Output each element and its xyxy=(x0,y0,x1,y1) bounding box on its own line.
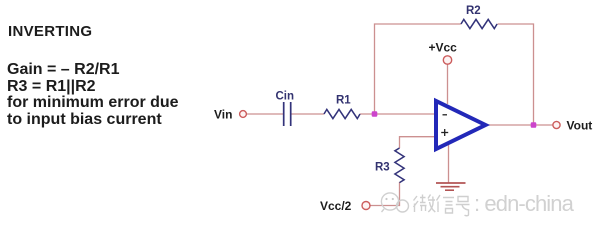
svg-text:+Vcc: +Vcc xyxy=(429,41,458,55)
svg-text:Vout: Vout xyxy=(567,119,593,133)
svg-text:: edn-china: : edn-china xyxy=(474,191,575,216)
svg-text:R3: R3 xyxy=(375,162,390,174)
svg-text:R2: R2 xyxy=(466,5,481,17)
svg-text:Cin: Cin xyxy=(276,91,295,103)
svg-text:Vcc/2: Vcc/2 xyxy=(320,199,352,213)
svg-text:R1: R1 xyxy=(336,95,351,107)
svg-text:Vin: Vin xyxy=(214,108,232,122)
